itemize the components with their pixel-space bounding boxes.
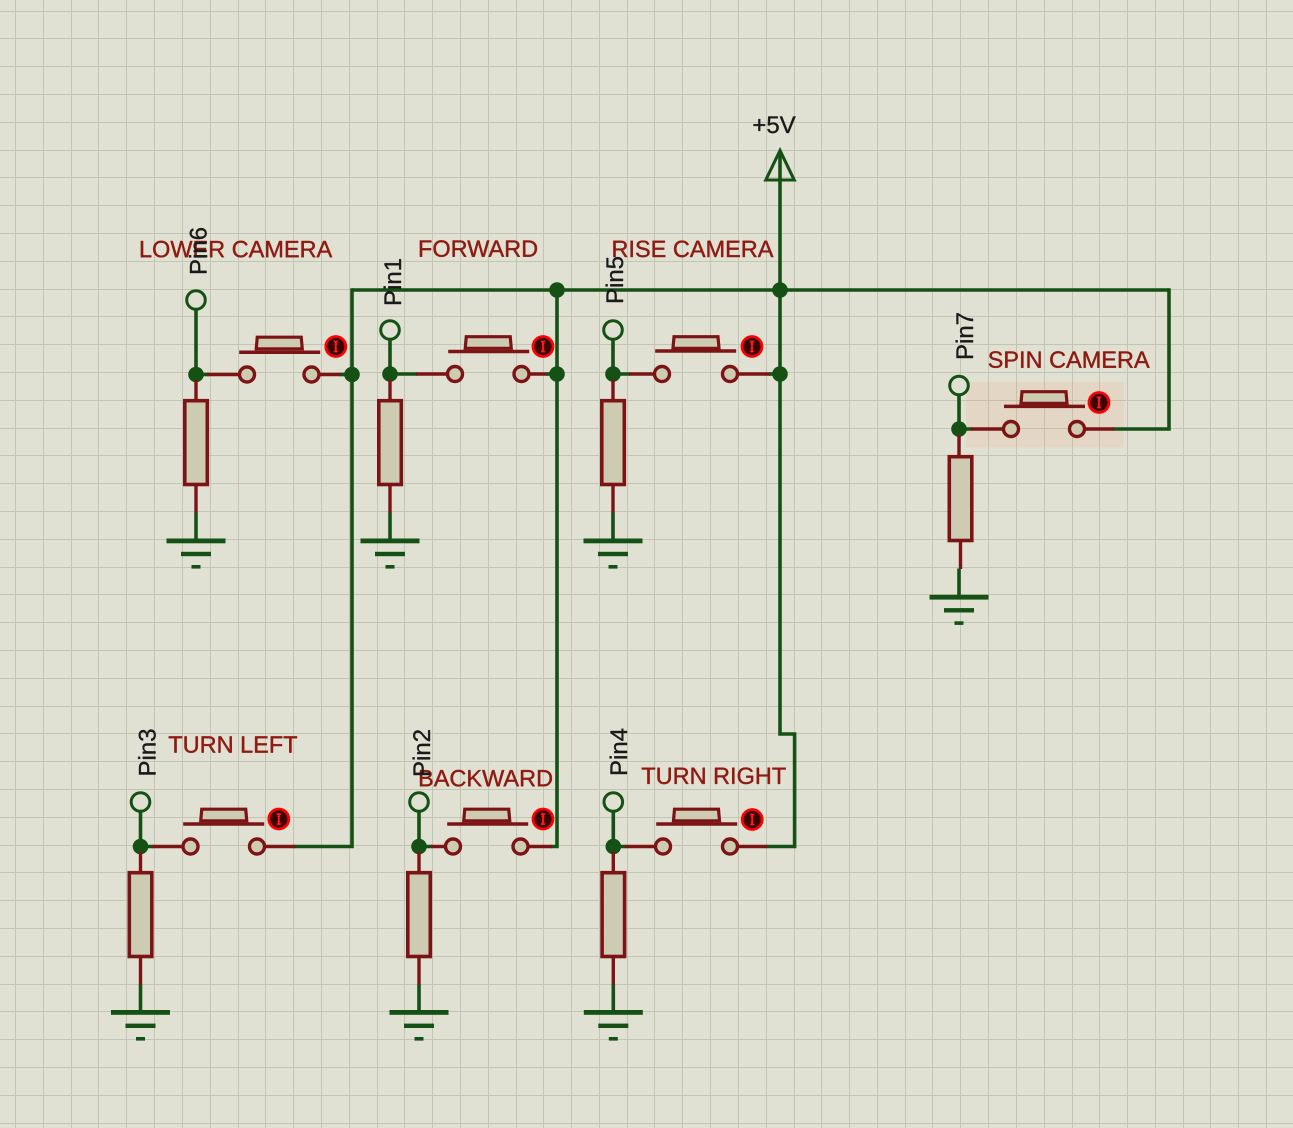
button LOWER CAMERA plate — [239, 350, 320, 354]
resistor R4 — [602, 873, 625, 957]
resistor R5 leads — [611, 380, 614, 513]
ground pin7 — [930, 595, 989, 625]
node dot bus x557 — [549, 282, 565, 298]
power symbol +5V arrow — [766, 151, 794, 181]
selection highlight (SPIN CAMERA) — [966, 382, 1124, 448]
wire stub to node x557 — [546, 372, 557, 376]
button SPIN contact right — [1070, 422, 1085, 437]
actuator button LOWER CAMERA — [326, 337, 346, 357]
button LOWER CAMERA cap — [256, 337, 302, 349]
resistor R2 — [129, 873, 152, 957]
button TURN RIGHT leads — [625, 845, 767, 848]
pin label Pin7 — [956, 313, 973, 358]
wire: bus drop x557 to BACKWARD — [551, 290, 557, 847]
wire: bus right drop to SPIN CAMERA — [1113, 288, 1169, 429]
button BACKWARD contact right — [513, 839, 528, 854]
button RISE contact right — [723, 367, 738, 382]
resistor R6 leads — [194, 380, 197, 513]
node dot pin7 — [951, 421, 967, 437]
ground pin3 — [111, 1010, 170, 1041]
wire stub to node x352 — [340, 373, 352, 377]
node dot pin4 — [606, 839, 622, 855]
pin terminal Pin6 — [187, 291, 206, 310]
button BACKWARD plate — [447, 822, 528, 826]
node dot x557 row — [549, 366, 565, 382]
wire: main +5V bus horizontal — [352, 288, 1169, 292]
resistor R4 leads — [612, 852, 615, 985]
button SPIN leads — [971, 427, 1114, 430]
button BACKWARD cap — [464, 809, 510, 821]
button SPIN plate — [1004, 405, 1085, 409]
wire resistor to ground — [417, 985, 421, 1012]
wire pin3 to node — [141, 812, 154, 847]
wire stub to node x780 — [769, 372, 780, 376]
pin label Pin5 — [606, 257, 624, 302]
pin terminal Pin4 — [604, 793, 623, 812]
resistor R7 leads — [959, 435, 961, 569]
resistor R3 leads — [417, 852, 420, 985]
actuator button FORWARD — [533, 337, 553, 357]
pin label Pin4 — [610, 729, 627, 774]
actuator button SPIN — [1089, 393, 1109, 413]
label RISE CAMERA — [613, 241, 773, 258]
node dot x780 row — [772, 366, 788, 382]
label LOWER CAMERA — [141, 241, 332, 258]
resistor R1 — [379, 401, 402, 485]
actuator button RISE — [742, 337, 762, 357]
button RISE contact left — [655, 367, 670, 382]
pin label Pin2 — [413, 730, 430, 775]
button TURN LEFT cap — [201, 809, 247, 821]
label SPIN CAMERA — [989, 351, 1150, 368]
node dot pin2 — [411, 839, 427, 855]
button TURN RIGHT plate — [656, 822, 737, 826]
wire resistor to ground — [611, 985, 615, 1012]
button FORWARD contact right — [514, 367, 529, 382]
wire resistor to ground — [957, 569, 961, 597]
wire pin1 to node — [390, 340, 417, 374]
pin terminal Pin5 — [604, 321, 623, 340]
label FORWARD — [420, 240, 537, 257]
node dot pin5 — [605, 366, 621, 382]
button BACKWARD contact left — [446, 839, 461, 854]
button RISE cap — [673, 337, 719, 349]
actuator button TURN RIGHT — [742, 810, 762, 830]
button FORWARD contact left — [448, 367, 463, 382]
button RISE plate — [655, 349, 736, 353]
button RISE leads — [629, 372, 770, 375]
pin terminal Pin3 — [131, 793, 150, 812]
button SPIN contact left — [1004, 422, 1019, 437]
button SPIN cap — [1021, 392, 1067, 404]
pin terminal Pin1 — [381, 321, 400, 340]
button BACKWARD leads — [431, 845, 552, 848]
resistor R2 leads — [139, 852, 142, 985]
ground pin2 — [390, 1010, 449, 1041]
actuator button BACKWARD — [533, 809, 553, 829]
resistor R1 leads — [388, 380, 391, 513]
button TURN LEFT plate — [183, 822, 264, 826]
label BACKWARD — [420, 770, 552, 787]
ground pin5 — [584, 539, 643, 569]
wire resistor to ground — [194, 513, 198, 541]
pin label Pin1 — [384, 259, 401, 304]
button LOWER CAMERA contact left — [240, 367, 255, 382]
wire pin6 to node — [196, 310, 209, 375]
button TURN RIGHT cap — [674, 809, 720, 821]
label TURN LEFT — [169, 736, 297, 752]
node dot pin3 — [133, 839, 149, 855]
button TURN RIGHT contact right — [723, 839, 738, 854]
button LOWER CAMERA contact right — [304, 367, 319, 382]
button FORWARD cap — [465, 337, 511, 349]
button LOWER CAMERA lead left — [207, 373, 341, 376]
node dot pin1 — [382, 366, 398, 382]
pin terminal Pin7 — [950, 376, 969, 395]
node dot x352 — [344, 367, 360, 383]
ground pin6 — [167, 539, 226, 569]
actuator button TURN LEFT — [269, 809, 289, 829]
resistor R6 — [185, 401, 208, 485]
wire pin2 to node — [419, 812, 432, 847]
button TURN LEFT contact left — [183, 839, 198, 854]
wire pin5 to node — [613, 340, 630, 374]
ground pin4 — [584, 1010, 643, 1041]
wire resistor to ground — [139, 985, 143, 1012]
wire resistor to ground — [611, 513, 615, 541]
button FORWARD leads — [416, 372, 547, 375]
power label +5V — [754, 117, 796, 134]
button TURN LEFT leads — [152, 845, 295, 848]
pin terminal Pin2 — [410, 793, 429, 812]
wire resistor to ground — [388, 513, 392, 541]
wire: bus drop x780 with jog to TURN RIGHT — [766, 290, 795, 847]
node dot bus x780 — [772, 282, 788, 298]
resistor R3 — [408, 873, 431, 957]
button FORWARD plate — [448, 350, 529, 354]
button TURN RIGHT contact left — [656, 839, 671, 854]
wire pin4 to node — [613, 812, 626, 847]
wire: bus left drop to TURN LEFT — [294, 288, 352, 846]
ground pin1 — [361, 539, 420, 569]
node dot pin6 — [188, 367, 204, 383]
label TURN RIGHT — [642, 768, 786, 785]
resistor R5 — [602, 401, 625, 485]
pin label Pin6 — [189, 228, 207, 273]
wire pin7 to node — [959, 395, 972, 429]
pin label Pin3 — [138, 730, 156, 775]
wire: +5V rail vertical into bus — [778, 152, 782, 290]
button TURN LEFT contact right — [250, 839, 265, 854]
resistor R7 — [949, 457, 972, 541]
